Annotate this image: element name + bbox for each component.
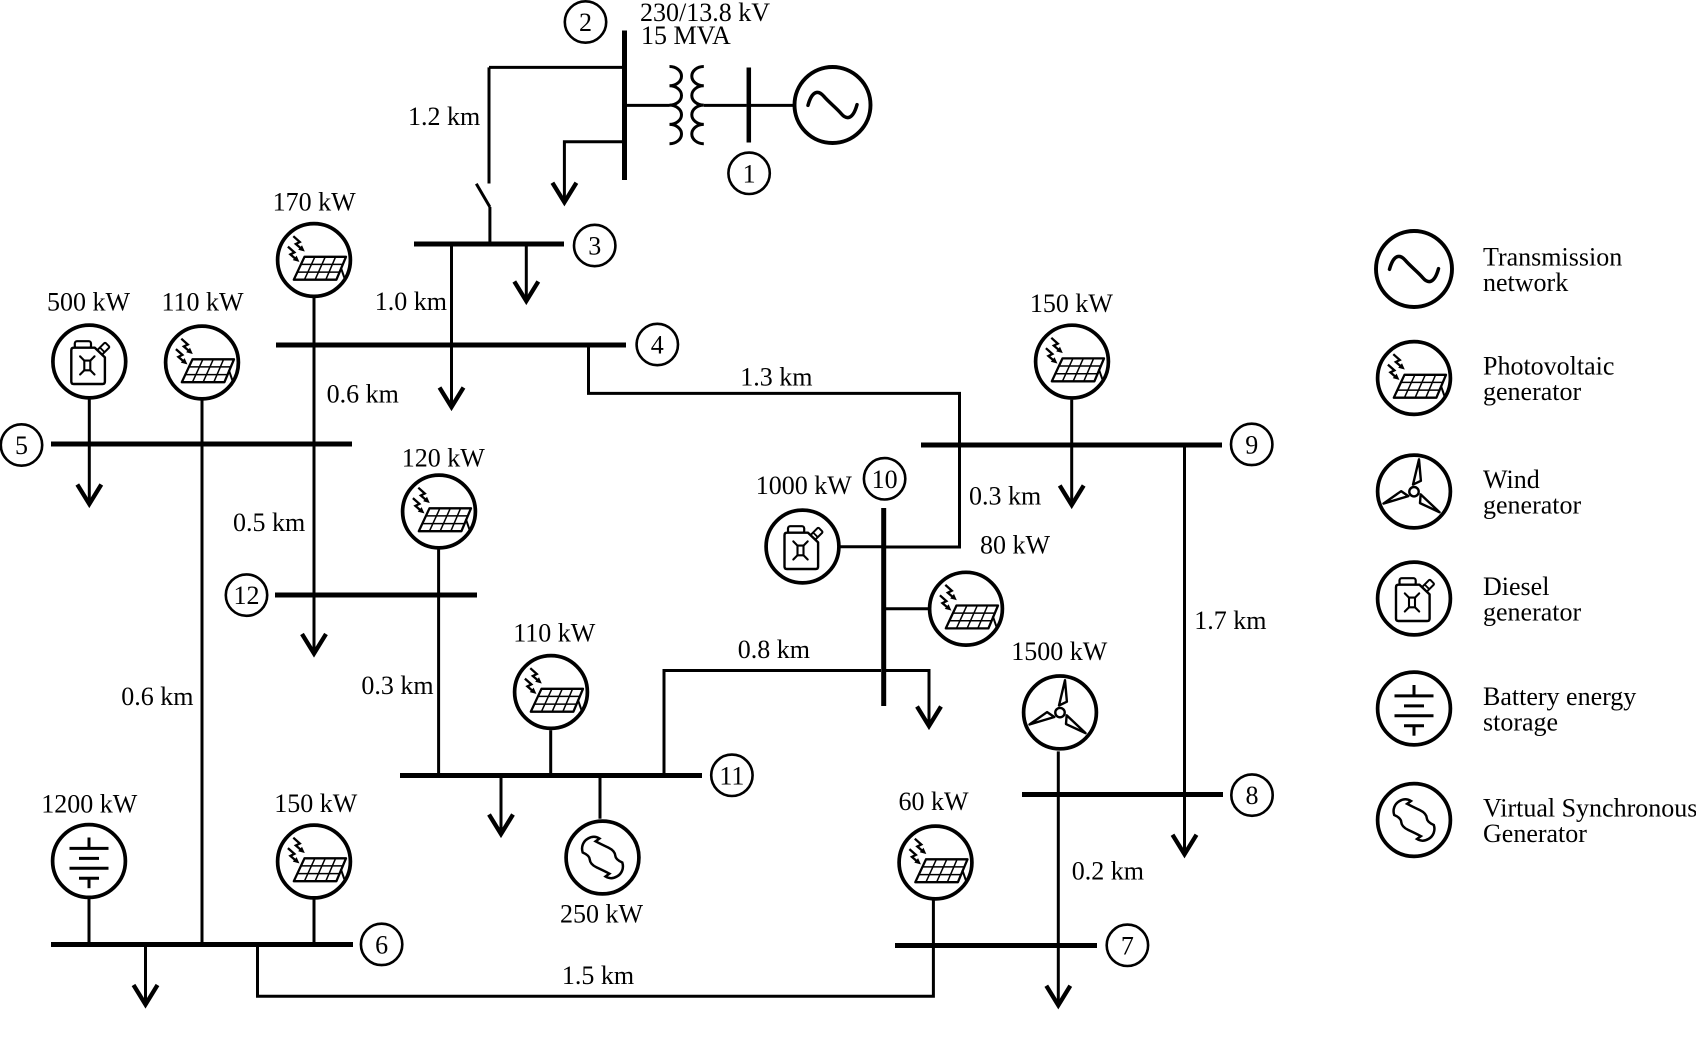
svg-text:150 kW: 150 kW bbox=[1030, 289, 1114, 318]
transformer T1 windings bbox=[670, 67, 704, 144]
svg-text:80 kW: 80 kW bbox=[980, 531, 1051, 560]
load arrow at bus 7 bbox=[1046, 946, 1070, 1006]
wire diesel 500 kW to bus 5 bbox=[88, 400, 91, 445]
node 5 label bbox=[1, 424, 42, 465]
svg-text:12: 12 bbox=[234, 581, 260, 610]
svg-text:0.5 km: 0.5 km bbox=[233, 508, 305, 537]
PV generator 110 kW at bus 5 bbox=[166, 326, 239, 399]
bus 8 bbox=[1022, 792, 1223, 797]
PV generator 120 kW bbox=[403, 475, 476, 548]
bus 12 bbox=[275, 593, 477, 598]
legend label Virtual Synchronous Generator bbox=[1483, 794, 1696, 849]
wire bus2 to 1.2 km feeder bbox=[489, 66, 625, 69]
svg-text:170 kW: 170 kW bbox=[273, 188, 357, 217]
node 1 label bbox=[728, 153, 769, 194]
wire bus3 to bus4 1.0 km bbox=[450, 244, 453, 345]
svg-text:6: 6 bbox=[375, 930, 388, 959]
wire VSG to bus 11 bbox=[599, 776, 602, 819]
load arrow at bus 6 bbox=[134, 945, 158, 1005]
wire PV 150 kW to bus 6 bbox=[313, 900, 316, 945]
svg-text:0.6 km: 0.6 km bbox=[327, 380, 399, 409]
wire PV 150 kW to bus 9 bbox=[1070, 400, 1073, 445]
bus 5 bbox=[51, 442, 352, 447]
legend wind generator icon bbox=[1378, 455, 1451, 528]
svg-text:generator: generator bbox=[1483, 598, 1582, 627]
bus 4 bbox=[276, 343, 626, 348]
bus 9 bbox=[921, 443, 1222, 448]
bus 1 bbox=[747, 68, 752, 143]
wire bus9 to bus10 0.3 km bbox=[886, 445, 960, 547]
wire bus6 to bus7 1.5 km bbox=[258, 945, 934, 997]
svg-text:9: 9 bbox=[1245, 430, 1258, 459]
transformer T1 label 230/13.8 kV 15 MVA bbox=[640, 0, 770, 50]
PV generator 150 kW at bus 6 bbox=[278, 825, 351, 898]
legend battery energy storage icon bbox=[1378, 672, 1451, 745]
svg-text:60 kW: 60 kW bbox=[899, 787, 970, 816]
bus 10 bbox=[881, 508, 886, 706]
svg-text:11: 11 bbox=[719, 761, 744, 790]
bus 7 bbox=[895, 943, 1097, 948]
PV generator 110 kW at bus 11 bbox=[515, 656, 588, 729]
wire PV 80 kW to bus 10 bbox=[886, 607, 929, 610]
node 2 label bbox=[565, 1, 606, 42]
svg-text:150 kW: 150 kW bbox=[274, 789, 358, 818]
PV generator 150 kW at bus 9 bbox=[1036, 325, 1109, 398]
load arrow at bus 4 bbox=[440, 345, 464, 407]
wire battery to bus 6 bbox=[88, 899, 91, 945]
svg-text:110 kW: 110 kW bbox=[162, 288, 245, 317]
legend label Diesel generator bbox=[1483, 572, 1582, 627]
VSG virtual synchronous generator 250 kW bbox=[566, 821, 639, 894]
wire wind generator to bus 8 and bus 7 0.2 km bbox=[1057, 751, 1060, 945]
wire bus 1 to transmission network bbox=[751, 104, 795, 107]
load arrow at bus 12 bbox=[302, 595, 326, 654]
svg-text:storage: storage bbox=[1483, 708, 1558, 737]
legend label Battery energy storage bbox=[1483, 682, 1636, 737]
wind generator 1500 kW bbox=[1024, 676, 1097, 749]
svg-text:1200 kW: 1200 kW bbox=[41, 790, 138, 819]
wire PV 120 kW to bus 12 bbox=[437, 549, 440, 595]
legend virtual synchronous generator icon bbox=[1378, 784, 1451, 857]
svg-text:Generator: Generator bbox=[1483, 819, 1587, 848]
node 9 label bbox=[1231, 424, 1272, 465]
svg-text:1.3 km: 1.3 km bbox=[740, 363, 812, 392]
svg-text:110 kW: 110 kW bbox=[513, 619, 596, 648]
node 10 label bbox=[864, 458, 905, 499]
PV generator 170 kW bbox=[278, 224, 351, 297]
svg-text:1.0 km: 1.0 km bbox=[375, 287, 447, 316]
svg-text:1500 kW: 1500 kW bbox=[1011, 637, 1107, 666]
load arrow at bus 5 bbox=[77, 444, 101, 504]
svg-text:0.3 km: 0.3 km bbox=[969, 482, 1041, 511]
node 11 label bbox=[711, 755, 752, 796]
svg-text:generator: generator bbox=[1483, 377, 1582, 406]
svg-text:1.2 km: 1.2 km bbox=[408, 102, 480, 131]
svg-text:3: 3 bbox=[588, 232, 601, 261]
svg-text:1.7 km: 1.7 km bbox=[1194, 606, 1266, 635]
svg-text:250 kW: 250 kW bbox=[560, 900, 644, 929]
wire bus9 to bus8 1.7 km with load arrow bbox=[1173, 445, 1197, 854]
wire 1.2 km line upper segment bbox=[488, 67, 491, 183]
legend label Photovoltaic generator bbox=[1483, 352, 1614, 407]
node 3 label bbox=[574, 225, 615, 266]
svg-text:500 kW: 500 kW bbox=[47, 288, 131, 317]
svg-text:0.8 km: 0.8 km bbox=[738, 635, 810, 664]
wire PV 60 kW to bus 7 bbox=[932, 900, 935, 946]
transmission network source G bbox=[795, 67, 871, 143]
legend label Wind generator bbox=[1483, 465, 1582, 520]
switch S1 blade bbox=[476, 184, 490, 207]
diesel generator 500 kW bbox=[53, 325, 126, 398]
wire transformer primary bbox=[626, 104, 670, 107]
legend label Transmission network bbox=[1483, 243, 1622, 298]
bus 3 bbox=[414, 242, 564, 247]
svg-text:5: 5 bbox=[15, 431, 28, 460]
svg-text:7: 7 bbox=[1121, 931, 1134, 960]
battery energy storage 1200 kW bbox=[53, 825, 126, 898]
svg-text:1000 kW: 1000 kW bbox=[756, 471, 853, 500]
wire diesel 1000 kW to bus 10 bbox=[841, 545, 882, 548]
wire PV 170 kW to bus 4 bbox=[313, 298, 316, 345]
bus 6 bbox=[51, 942, 353, 947]
svg-text:8: 8 bbox=[1246, 781, 1259, 810]
svg-text:2: 2 bbox=[579, 8, 592, 37]
wire switch to bus 3 bbox=[488, 207, 491, 244]
node 4 label bbox=[637, 324, 678, 365]
svg-text:120 kW: 120 kW bbox=[402, 444, 486, 473]
legend transmission network icon bbox=[1376, 231, 1452, 307]
bus 11 bbox=[400, 773, 702, 778]
PV generator 80 kW bbox=[930, 572, 1003, 645]
node 7 label bbox=[1107, 925, 1148, 966]
load arrow at bus 9 bbox=[1060, 445, 1084, 505]
wire bus4 to bus9 1.3 km bbox=[589, 345, 960, 445]
node 6 label bbox=[361, 924, 402, 965]
svg-text:4: 4 bbox=[651, 331, 664, 360]
node 12 label bbox=[226, 574, 267, 615]
load arrow at bus 2 bbox=[552, 142, 624, 203]
svg-text:10: 10 bbox=[872, 465, 898, 494]
legend diesel generator icon bbox=[1378, 562, 1451, 635]
svg-text:15 MVA: 15 MVA bbox=[641, 21, 731, 50]
wire bus12 to bus11 0.3 km bbox=[437, 595, 440, 776]
svg-text:1: 1 bbox=[743, 159, 756, 188]
load arrow at bus 10 bbox=[884, 671, 941, 727]
svg-text:generator: generator bbox=[1483, 491, 1582, 520]
svg-text:0.6 km: 0.6 km bbox=[121, 682, 193, 711]
wire bus4 to bus12 0.6 km bbox=[313, 345, 316, 595]
wire PV 110 kW to bus 11 bbox=[549, 730, 552, 775]
node 8 label bbox=[1231, 774, 1272, 815]
PV generator 60 kW bbox=[899, 826, 972, 899]
svg-text:network: network bbox=[1483, 268, 1568, 297]
diesel generator 1000 kW bbox=[766, 510, 839, 583]
wire bus5 to bus6 0.6 km bbox=[201, 444, 204, 945]
bus 2 bbox=[622, 31, 627, 181]
svg-text:0.2 km: 0.2 km bbox=[1072, 857, 1144, 886]
svg-text:1.5 km: 1.5 km bbox=[562, 961, 634, 990]
load arrow at bus 11 bbox=[489, 776, 513, 835]
load arrow at bus 3 bbox=[514, 244, 538, 301]
legend photovoltaic icon bbox=[1378, 342, 1451, 415]
wire PV 110 kW to bus 5 bbox=[201, 401, 204, 445]
wire transformer secondary to bus 1 bbox=[704, 104, 747, 107]
wire bus11 to bus10 0.8 km bbox=[664, 671, 881, 776]
svg-text:0.3 km: 0.3 km bbox=[361, 671, 433, 700]
